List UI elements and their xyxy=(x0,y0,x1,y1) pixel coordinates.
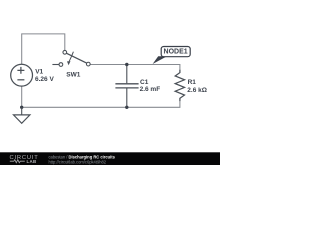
V1 plus sign xyxy=(17,67,24,74)
capacitor C1 top terminal xyxy=(126,65,128,84)
svg-text:R1: R1 xyxy=(188,79,197,86)
ground triangle xyxy=(14,115,30,123)
footer logo resistor squiggle xyxy=(10,160,25,163)
svg-text:V1: V1 xyxy=(35,68,43,75)
junction dot at ground xyxy=(20,106,23,109)
svg-text:2.6 kΩ: 2.6 kΩ xyxy=(187,87,207,94)
switch SW1 actuation arrow head xyxy=(67,61,71,65)
node NODE1 callout box xyxy=(161,47,190,57)
footer black bar xyxy=(0,152,220,165)
wire top-left from V1 to SW1 xyxy=(22,34,65,64)
switch SW1 right terminal circle xyxy=(86,62,90,66)
svg-text:cabestan / Discharging RC circ: cabestan / Discharging RC circuits xyxy=(49,154,116,159)
switch SW1 top terminal circle xyxy=(63,50,67,54)
svg-text:NODE1: NODE1 xyxy=(164,49,188,56)
node NODE1 callout pointer xyxy=(153,56,167,64)
capacitor C1 top plate xyxy=(115,83,138,85)
svg-text:SW1: SW1 xyxy=(66,72,80,79)
svg-text:http://circuitlab.com/c6pk4t9h: http://circuitlab.com/c6pk4t9h82 xyxy=(49,160,107,165)
voltage source V1 circle xyxy=(11,64,33,86)
V1 minus sign xyxy=(17,79,24,81)
switch SW1 open throw dash xyxy=(52,64,59,66)
resistor R1 zigzag xyxy=(175,70,184,102)
svg-text:2.6 mF: 2.6 mF xyxy=(140,86,161,93)
switch SW1 open throw circle xyxy=(59,63,63,67)
svg-text:6.26 V: 6.26 V xyxy=(35,76,54,83)
ground stub xyxy=(21,107,23,115)
wire bottom rail xyxy=(22,86,180,107)
junction dot bottom of C1 xyxy=(125,106,128,109)
capacitor C1 bottom terminal xyxy=(126,88,128,107)
capacitor C1 bottom plate xyxy=(115,87,138,89)
wire main horizontal (switch to resistor corner) xyxy=(90,65,180,70)
svg-text:LAB: LAB xyxy=(27,159,37,164)
junction dot top of C1 xyxy=(125,63,128,66)
switch SW1 lever xyxy=(66,53,86,63)
switch SW1 actuation arrow shaft xyxy=(69,52,73,62)
